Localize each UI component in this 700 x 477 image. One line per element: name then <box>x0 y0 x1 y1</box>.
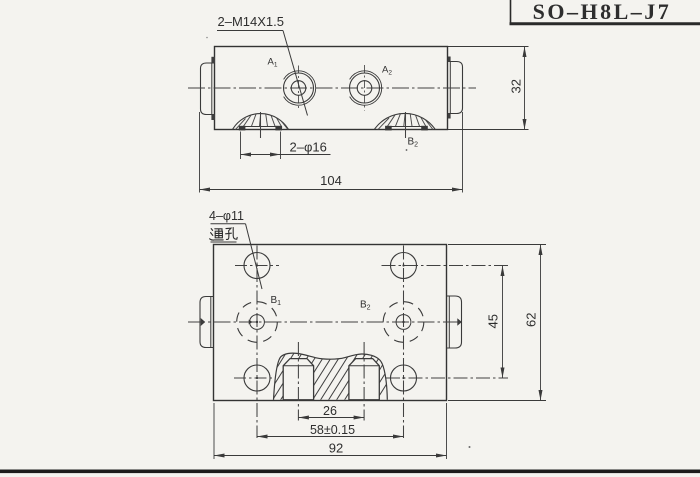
port A1 <box>284 66 316 111</box>
bottom hole row centerline / 45 extension <box>386 377 508 379</box>
top-left hole row centerline <box>235 265 279 267</box>
left dome hole edge marks <box>239 126 282 131</box>
port B2 dashed circle <box>383 302 424 343</box>
right boss arrow <box>457 318 462 325</box>
right weld dome <box>374 113 435 129</box>
bottom-left hole row centerline <box>234 377 272 379</box>
dimension 26 <box>298 417 364 419</box>
top view body outline <box>215 47 448 130</box>
left dome centerline <box>260 112 262 138</box>
bottom view main centerline <box>188 321 461 323</box>
hatched cavity blob <box>274 353 388 400</box>
dimension 2-phi16 <box>241 132 331 160</box>
dimension 45 <box>502 266 504 379</box>
top view right boss <box>448 62 463 114</box>
mounting hole top-left <box>244 253 270 279</box>
left weld dome <box>233 114 289 130</box>
left plug centerline <box>297 342 299 421</box>
right dome hole edge marks <box>385 126 428 131</box>
hole callout tong kong (through hole), drawn as vector strokes <box>210 228 238 240</box>
page bottom border <box>0 470 700 474</box>
top view left boss <box>201 63 216 115</box>
svg-text:104: 104 <box>320 173 342 188</box>
top hole row centerline / 45 extension <box>382 265 509 267</box>
left dome hatch <box>235 112 288 130</box>
title block frame <box>510 0 700 24</box>
bottom view left boss <box>200 297 214 348</box>
mounting hole bottom-left <box>244 365 270 391</box>
svg-text:62: 62 <box>524 313 539 327</box>
hex plug left <box>283 359 313 400</box>
port B1 dashed circle <box>237 302 278 343</box>
svg-text:4–φ11: 4–φ11 <box>209 209 244 223</box>
right plug centerline <box>363 342 365 421</box>
left boss arrow <box>201 318 206 326</box>
right hole column centerline <box>403 246 405 439</box>
mounting hole top-right <box>391 253 417 279</box>
dimension 32 <box>448 47 529 130</box>
svg-text:26: 26 <box>323 404 337 418</box>
dimension 62 <box>448 245 546 401</box>
svg-text:SO–H8L–J7: SO–H8L–J7 <box>533 0 672 24</box>
svg-text:58±0.15: 58±0.15 <box>310 423 355 437</box>
scan specks <box>406 149 408 151</box>
bottom view body outline <box>214 245 447 401</box>
dimension 58 <box>257 436 404 438</box>
svg-text:2–M14X1.5: 2–M14X1.5 <box>218 14 285 29</box>
cavity hatch lines <box>246 350 408 404</box>
top view horizontal centerline <box>188 87 476 89</box>
hex plug right <box>349 359 379 400</box>
right dome centerline <box>405 112 407 138</box>
dimension 104 <box>200 112 463 193</box>
left hole column centerline <box>256 246 258 439</box>
callout leader <box>246 224 263 289</box>
right dome hatch <box>378 112 434 130</box>
svg-text:32: 32 <box>509 79 524 93</box>
svg-text:2–φ16: 2–φ16 <box>290 140 327 155</box>
svg-text:45: 45 <box>486 314 501 328</box>
svg-text:92: 92 <box>329 441 343 456</box>
bottom view right boss <box>447 296 462 348</box>
boss corner marks <box>211 57 450 121</box>
mounting hole bottom-right <box>391 365 417 391</box>
dimension 92 <box>214 403 447 459</box>
port A2 <box>350 65 382 111</box>
